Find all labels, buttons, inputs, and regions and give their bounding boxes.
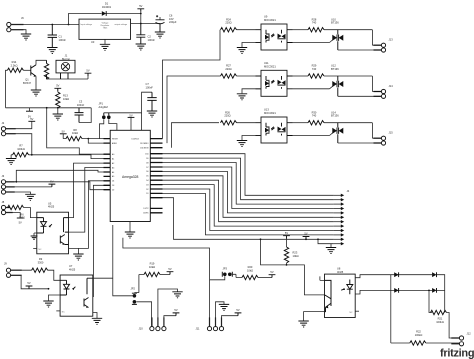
wire C3 loop	[79, 108, 91, 123]
wire R21 to J12	[447, 313, 460, 339]
diode D3	[432, 272, 436, 277]
5V R20	[258, 277, 272, 279]
U5 emitter to ground	[69, 248, 79, 253]
svg-text:100kΩ: 100kΩ	[436, 320, 444, 324]
ground below node	[57, 108, 59, 114]
wire J11 pin1 vertical	[209, 280, 211, 327]
U5 NC pin	[33, 247, 37, 249]
svg-text:D1/TX: D1/TX	[143, 208, 149, 210]
voltage regulator U3 box	[79, 19, 131, 39]
svg-text:A1: A1	[112, 157, 114, 160]
svg-text:1N4001: 1N4001	[102, 5, 112, 9]
svg-text:Buzzer: Buzzer	[62, 57, 70, 61]
svg-text:100kΩ: 100kΩ	[17, 147, 25, 151]
resistor R21 100k	[431, 310, 447, 314]
resistor R13 10k vertical	[56, 92, 60, 108]
U7 NC pin	[56, 310, 60, 312]
wire J2 pin2 down	[5, 134, 31, 155]
resistor R14 2.2k	[7, 68, 23, 72]
svg-text:10kΩ: 10kΩ	[63, 97, 69, 101]
wire J3 pin1 up branch to A3	[16, 170, 103, 182]
wire J11 pin2 to ground	[216, 302, 225, 327]
wire bridge right	[437, 275, 445, 313]
wire vertical to JP2	[113, 225, 133, 296]
svg-text:MOC3021: MOC3021	[264, 64, 276, 68]
U5 transistor internals	[60, 218, 68, 245]
channel row 1: R24/U9 MOC3021/R28/U10 BT136/J13	[221, 24, 386, 54]
diode D1 1N4001	[102, 11, 106, 16]
optocoupler U7 4N25	[60, 275, 93, 316]
wire R9 to U7 anode	[48, 270, 61, 280]
svg-text:2.2kΩ: 2.2kΩ	[11, 63, 18, 67]
capacitor C1 100nF	[51, 25, 53, 48]
svg-text:100nF: 100nF	[146, 86, 154, 90]
U7 transistor internals	[84, 278, 93, 307]
svg-text:4N25: 4N25	[48, 205, 55, 209]
wire R21 left vertical	[429, 290, 432, 312]
svg-text:U3: U3	[91, 40, 95, 44]
svg-text:D1: D1	[146, 193, 148, 195]
diode D5	[432, 288, 436, 293]
U8 NC pin	[355, 310, 359, 312]
svg-text:100kΩ: 100kΩ	[415, 333, 423, 337]
wire R14 left down	[6, 70, 8, 108]
wire JP1 top rail	[104, 112, 142, 114]
svg-text:Input voltage: Input voltage	[81, 23, 93, 26]
wire U5 base up to A1	[69, 163, 104, 218]
5V below rail (left)	[29, 108, 31, 111]
wire J10 pin2 to ground	[158, 289, 178, 327]
IC U1 ATmega328	[110, 130, 150, 221]
svg-text:3300: 3300	[38, 260, 44, 264]
U7 cathode to ground	[49, 295, 61, 301]
svg-text:J10: J10	[139, 327, 144, 331]
svg-text:A2: A2	[112, 162, 114, 165]
wire R22 left	[391, 342, 410, 344]
ATmega bottom ground pin	[129, 222, 131, 232]
wire J6 pin2 to ground	[11, 30, 26, 34]
svg-text:RESET: RESET	[112, 138, 119, 140]
buzzer J1	[56, 60, 75, 73]
svg-text:D4: D4	[146, 180, 148, 182]
right pin stubs	[150, 139, 162, 213]
ground J4 pin 12	[331, 244, 334, 248]
svg-text:100nF: 100nF	[77, 103, 85, 107]
wire J3 pin1 to A3/D pin	[5, 182, 103, 190]
svg-text:J14: J14	[389, 84, 394, 88]
svg-text:10kΩ: 10kΩ	[149, 265, 155, 269]
svg-text:A4: A4	[112, 171, 114, 174]
svg-text:D12/MISO: D12/MISO	[140, 143, 149, 145]
svg-text:D5: D5	[146, 176, 148, 178]
optocoupler U5 4N25	[37, 212, 69, 254]
wire R8 node to AREF pin	[88, 139, 103, 144]
svg-text:D9: D9	[146, 158, 148, 160]
connector J6	[7, 22, 11, 26]
svg-text:MOC3021: MOC3021	[264, 111, 276, 115]
resistor R22 100k	[410, 341, 426, 345]
wire JP2 to J10 pin1	[136, 302, 151, 326]
wire bus staircase	[163, 154, 334, 235]
wire R8 to RESET pin	[82, 138, 104, 140]
svg-text:5V: 5V	[19, 220, 22, 224]
Q1 emitter to ground	[35, 76, 37, 90]
resistor R8 10k	[66, 136, 82, 140]
svg-text:D7: D7	[146, 167, 148, 169]
R7 left to ground	[11, 155, 13, 159]
wire U7 base right	[93, 277, 113, 279]
connector J9	[6, 268, 10, 272]
optocoupler U8 4N25	[325, 274, 356, 317]
svg-text:5V: 5V	[62, 130, 65, 134]
channel 3 wire from D11	[172, 123, 220, 148]
U3 ground pin	[104, 39, 106, 44]
svg-text:MOC3021: MOC3021	[264, 18, 276, 22]
svg-text:JP3: JP3	[223, 266, 228, 270]
svg-text:Amega328: Amega328	[122, 175, 139, 179]
svg-text:fritzing: fritzing	[440, 348, 474, 359]
capacitor C6 220uF electrolytic	[159, 23, 161, 32]
5V rail symbol (top)	[137, 4, 144, 12]
wire J11 pin3 to 5V	[222, 316, 239, 327]
wire A5 down to U7 collector	[93, 185, 104, 296]
U5 LED internals	[37, 218, 47, 231]
svg-text:output voltage: output voltage	[115, 23, 128, 26]
connector J10	[150, 327, 154, 331]
svg-text:10kΩ: 10kΩ	[72, 131, 78, 135]
node junction D1 branch	[68, 24, 70, 26]
svg-text:D13/SCK: D13/SCK	[132, 138, 140, 140]
wire J9 pin2 to 5V rail	[10, 275, 48, 289]
capacitor C7 100nF	[147, 92, 156, 110]
left pin stubs	[104, 139, 111, 190]
svg-text:BT136: BT136	[331, 114, 339, 118]
diode D2	[394, 272, 398, 277]
svg-text:D3: D3	[112, 185, 114, 187]
ground C2	[136, 44, 146, 50]
U7 emitter to ground	[93, 313, 97, 319]
U5 cathode to ground	[34, 233, 37, 236]
wire buzzer bottom rail	[47, 78, 89, 80]
wire node down staircase to A0	[47, 108, 104, 154]
svg-text:A0: A0	[112, 153, 114, 156]
svg-text:4N25: 4N25	[337, 270, 344, 274]
ground C1	[47, 48, 57, 54]
U8 emitter wire to ground	[304, 312, 325, 321]
resistor R23 10k vertical	[284, 247, 288, 263]
svg-text:D3: D3	[146, 184, 148, 186]
pin name labels	[112, 138, 149, 214]
wire U8 to bridge mid	[355, 290, 432, 294]
wire J6 to regulator input	[11, 24, 79, 26]
wire 5V down to output node	[140, 12, 142, 24]
wire J10 pin3 to 5V	[164, 316, 176, 327]
5V on J4 pin 11	[303, 232, 310, 240]
svg-text:D6: D6	[146, 171, 148, 173]
svg-text:5V: 5V	[30, 117, 33, 121]
svg-text:5V: 5V	[129, 113, 132, 117]
ground J3 pin3	[5, 192, 30, 194]
ground C6	[155, 32, 165, 38]
connector J12	[459, 336, 463, 340]
U7 LED internals	[60, 280, 69, 295]
svg-text:D10: D10	[145, 154, 148, 156]
channel 1 wires from D13	[163, 30, 221, 139]
connector J2	[1, 127, 5, 131]
5V J8 pin2 (inverted)	[5, 213, 20, 219]
5V R13	[54, 84, 61, 92]
channel 2 wire from D12	[167, 76, 221, 143]
svg-text:BT136: BT136	[331, 21, 339, 25]
resistor R6 330	[5, 207, 7, 209]
svg-text:J11: J11	[196, 327, 201, 331]
svg-text:J12: J12	[467, 332, 472, 336]
svg-text:740: 740	[312, 114, 317, 118]
wire bus to U8 input	[261, 239, 325, 295]
diode D4	[394, 288, 398, 293]
ground C7	[147, 111, 157, 117]
svg-text:220µF: 220µF	[169, 20, 177, 24]
svg-text:AnlgRef: AnlgRef	[99, 105, 109, 109]
svg-text:10kΩ: 10kΩ	[293, 254, 299, 258]
wire A4 down left column	[78, 181, 103, 249]
capacitor C2 100nF	[140, 24, 142, 44]
connector J8	[1, 205, 5, 209]
svg-text:740: 740	[312, 67, 317, 71]
svg-text:JP2: JP2	[131, 286, 136, 290]
wire JP3 right pad to R20	[232, 274, 242, 277]
channel row 2: R27/U11 MOC3021/R29/U12 BT136/J14	[221, 70, 386, 100]
U8 transistor internals	[325, 280, 332, 311]
svg-text:A3: A3	[112, 166, 114, 169]
svg-text:J15: J15	[389, 131, 394, 135]
resistor R7 100k	[13, 153, 29, 157]
Q1 collector wire	[36, 60, 47, 65]
svg-text:D0/RX: D0/RX	[143, 213, 149, 215]
svg-text:220Ω: 220Ω	[224, 114, 230, 118]
svg-text:BC547: BC547	[23, 81, 31, 85]
wire top pin AREF	[141, 113, 143, 131]
5V buzzer	[85, 68, 92, 76]
U8 LED internals	[347, 280, 353, 295]
wire D2 to J4 pin11	[163, 198, 334, 240]
connector J11	[207, 327, 211, 331]
wire JP1 right pad to VCC pin	[109, 119, 117, 130]
svg-text:4N25: 4N25	[69, 267, 76, 271]
wire R6 to U5	[24, 208, 37, 218]
connector J3	[1, 180, 5, 184]
resistor R9 330	[10, 269, 31, 271]
svg-text:BT136: BT136	[331, 67, 339, 71]
U8 base stub	[320, 276, 325, 280]
bridge left vertical	[390, 275, 392, 343]
wire bottom node rail	[6, 107, 92, 109]
wire long vertical to J11	[123, 238, 210, 280]
wire D1 to 5V node	[106, 13, 140, 15]
svg-text:D2: D2	[112, 190, 114, 192]
svg-text:D2: D2	[146, 189, 148, 191]
resistor R19 10k	[144, 272, 160, 276]
svg-text:D4: D4	[112, 181, 114, 183]
svg-text:220Ω: 220Ω	[225, 21, 231, 25]
5V J3 pin2	[5, 186, 52, 188]
svg-text:A5: A5	[112, 175, 114, 178]
wire U8 to bridge top	[355, 275, 432, 278]
svg-text:220Ω: 220Ω	[225, 67, 231, 71]
5V R23	[283, 231, 290, 239]
ground J6	[21, 34, 31, 40]
svg-text:J13: J13	[389, 38, 394, 42]
wire R7 node to A0	[29, 155, 104, 159]
svg-text:10kΩ: 10kΩ	[247, 268, 253, 272]
wire U5 collector up to A2	[69, 168, 104, 233]
capacitor C3 100nF	[78, 108, 80, 123]
svg-text:D8: D8	[146, 162, 148, 164]
resistor R15 (series buzzer) vertical	[46, 60, 48, 79]
wire U3 output	[131, 23, 161, 25]
svg-text:740: 740	[312, 21, 317, 25]
wire AREF rail up to C7	[142, 92, 152, 113]
svg-text:100nF: 100nF	[59, 38, 67, 42]
wire R19 to JP2	[139, 275, 144, 293]
resistor R20 10k	[242, 275, 258, 279]
wire to diode D1	[69, 14, 102, 25]
wire JP3 left pad to J11	[210, 276, 225, 280]
svg-text:100nF: 100nF	[148, 38, 156, 42]
node junction C1	[51, 24, 53, 26]
wire J2 pin1 to 5V	[5, 121, 31, 128]
5V R19	[160, 274, 170, 276]
wire JP1 left pad to reset net	[100, 119, 104, 138]
channel row 3: R26/U13 MOC3021/R30/U14 BT136/J15	[221, 117, 386, 147]
transistor Q1 BC547	[23, 69, 30, 71]
wire R22 to J12	[426, 342, 460, 344]
svg-text:D11/MOSI: D11/MOSI	[140, 148, 149, 150]
header J4 arrows	[334, 194, 345, 246]
